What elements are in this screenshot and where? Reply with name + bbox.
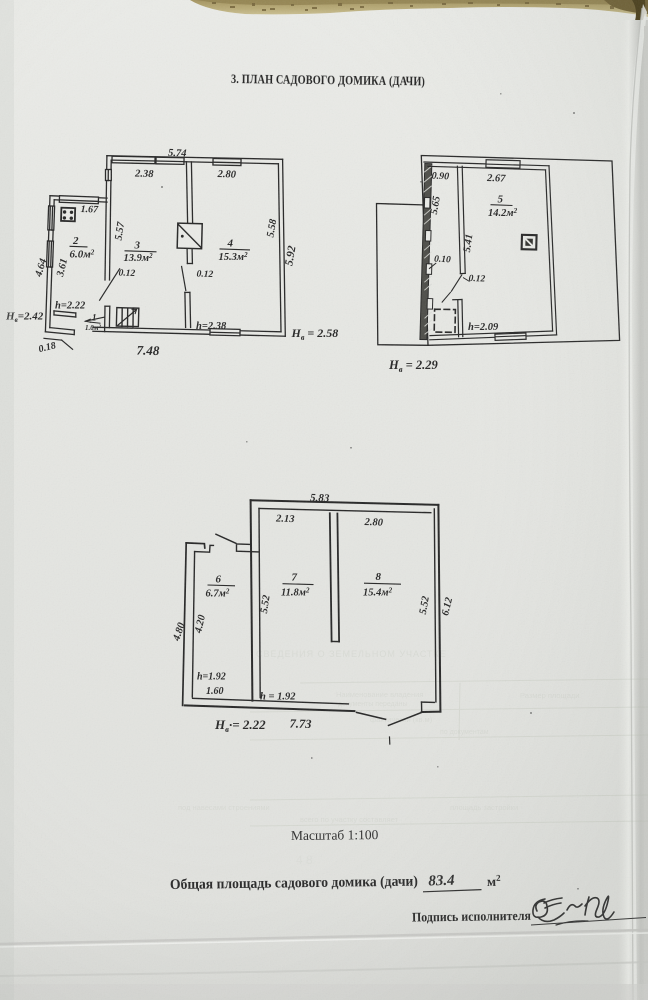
wall: annex bottom	[45, 332, 74, 335]
wall: main left outer	[105, 156, 107, 280]
window W3 top wall	[213, 158, 241, 165]
signature underline	[531, 918, 646, 926]
stove U1 between rooms 3-4	[177, 223, 202, 249]
wall: annex6 top inner with notch	[195, 545, 214, 552]
wall: main right inner	[278, 164, 281, 332]
window a2 on annex left wall	[47, 241, 54, 267]
plan2 labels	[388, 171, 518, 374]
kitchen stove (4 burners) in room 2	[61, 208, 75, 222]
wall: plan3 left (rooms 6|7) outer	[251, 500, 253, 700]
wall: interior between rooms 3 and 4, upper part	[186, 162, 187, 223]
threshold step 0.18	[44, 338, 62, 340]
door leaf room3-hall	[182, 267, 186, 291]
chimney flue in room 5	[522, 235, 537, 250]
door leaf annex6 entrance	[216, 534, 236, 543]
wall: main top inner	[111, 160, 278, 164]
window gaps in left wall	[424, 197, 432, 309]
wall: corridor partition	[457, 166, 460, 273]
roof outline rectangle	[421, 156, 619, 346]
hatch opening (dashed)	[434, 309, 455, 332]
window W1 top wall	[112, 156, 155, 163]
wall: plan3 top inner	[259, 509, 431, 513]
paper creases near bottom	[0, 930, 648, 944]
underline for area value	[423, 890, 482, 892]
wall: annex6 left inner	[192, 552, 194, 697]
table surface band at top of photo	[190, 0, 648, 17]
wall: plan3 left (rooms 6|7) inner	[259, 509, 260, 698]
PLAN1 : ground floor plan	[44, 156, 285, 350]
dust specks	[161, 93, 579, 890]
wall: annex top inner	[54, 200, 107, 202]
leader from door to wall	[442, 292, 451, 303]
dark debris at top right corner	[604, 0, 648, 14]
tick below door	[389, 737, 391, 744]
wall: room2 bottom door wall piece	[54, 311, 76, 313]
door leaves at bottom entrance	[357, 712, 386, 719]
wall: lower stub of partition	[457, 300, 460, 337]
wall: attic top	[424, 162, 549, 166]
wall: partition rooms 7|8	[330, 513, 332, 641]
window on main left wall	[106, 170, 112, 181]
wall: annex left inner	[50, 200, 54, 328]
wall: annex left outer	[45, 196, 50, 332]
wall: main right outer	[283, 159, 286, 336]
door leaf room2-room3	[100, 269, 120, 300]
wall: plan3 bottom inner	[193, 698, 349, 704]
wall: annex6 left outer	[183, 543, 187, 706]
wall: plan3 bottom outer	[185, 705, 355, 711]
wall: annex top outer	[50, 196, 107, 198]
window on annex top wall	[59, 196, 98, 204]
window on attic bottom wall	[495, 333, 526, 340]
PLAN3 : basement / second building plan	[183, 500, 441, 744]
wall: interior below stove	[186, 249, 188, 264]
wall: plan3 right outer	[438, 505, 440, 712]
window a1 on annex left wall	[48, 206, 55, 230]
window on bottom wall	[210, 329, 240, 336]
faint show-through of table on reverse side	[178, 649, 579, 867]
plan3 labels	[171, 492, 455, 734]
wall: annex6 top outer with notch	[186, 543, 205, 548]
window on attic top wall	[486, 160, 520, 169]
wall: interior stub to bottom	[184, 292, 187, 327]
wall: attic left (dark)	[420, 164, 432, 340]
wall: main top outer	[107, 156, 283, 160]
wall: attic right	[549, 166, 557, 335]
roof outline left extension	[377, 204, 429, 346]
wall: main left inner	[110, 160, 112, 280]
leader arrow to porch room 1	[85, 317, 104, 321]
wall: attic bottom	[430, 335, 557, 340]
door gap then porch stub wall on left	[104, 306, 106, 331]
wall: plan3 top outer	[251, 500, 439, 505]
PLAN2 : attic floor plan	[377, 156, 620, 346]
door leaf corridor	[451, 275, 461, 291]
executor signature	[533, 896, 614, 925]
wall: main bottom inner	[93, 327, 281, 332]
wall: plan3 right inner	[434, 509, 436, 702]
window W2 top wall	[156, 157, 184, 164]
right page-edge fold	[618, 20, 648, 1000]
wall: main bottom outer	[93, 331, 285, 336]
plan1 dimension and room labels	[5, 148, 338, 358]
bottom-right notch	[422, 701, 435, 703]
stairs at entrance	[116, 308, 138, 327]
wall piece between door and main building	[237, 544, 260, 552]
